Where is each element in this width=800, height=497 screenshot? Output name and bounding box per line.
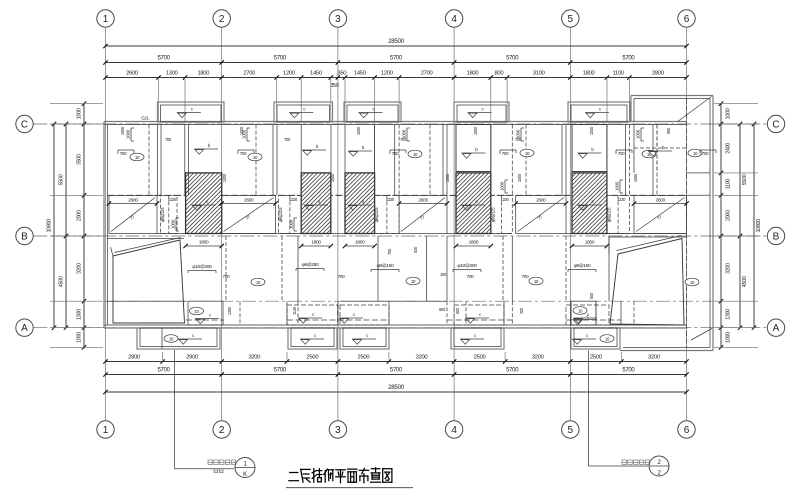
left dimension middle column <box>65 124 67 328</box>
bottom room slope <box>298 312 322 323</box>
svg-text:2600: 2600 <box>418 198 428 204</box>
right dimension outer column <box>753 124 755 328</box>
right wing hip diagonal bottom <box>691 329 712 341</box>
dimension row top overall 28500 <box>106 45 687 47</box>
right extension lines <box>714 103 758 105</box>
grid line axis A <box>33 327 767 329</box>
svg-text:100: 100 <box>440 272 447 277</box>
svg-text:1000: 1000 <box>726 108 732 119</box>
detail leader right <box>588 351 590 467</box>
svg-text:2000: 2000 <box>77 210 83 221</box>
svg-text:10800: 10800 <box>756 219 762 233</box>
bottom balcony 5 <box>571 328 620 349</box>
right dimension inner column <box>720 104 722 348</box>
svg-text:2800: 2800 <box>128 355 140 361</box>
svg-text:2600: 2600 <box>536 198 546 204</box>
axis circle B right <box>767 227 784 244</box>
dimension row bottom overall 28500 <box>106 391 687 393</box>
svg-text:1: 1 <box>103 14 109 25</box>
svg-text:1200: 1200 <box>283 71 295 77</box>
stair foot room left <box>188 301 223 325</box>
svg-text:3200: 3200 <box>532 355 544 361</box>
svg-text:1000: 1000 <box>126 129 131 139</box>
svg-text:2600: 2600 <box>655 198 665 204</box>
double wall lines band1 <box>157 125 159 196</box>
svg-text:5700: 5700 <box>506 56 519 62</box>
grid line axis 4 <box>453 27 455 420</box>
top balcony 1 <box>158 102 225 122</box>
bottom room slope <box>465 312 489 323</box>
title underline <box>286 487 413 489</box>
axis circle 5 top <box>562 10 579 27</box>
slab mark <box>406 277 420 285</box>
shaft cell 2 <box>279 195 302 233</box>
svg-text:1800: 1800 <box>355 240 365 246</box>
svg-text:4: 4 <box>451 14 457 25</box>
svg-text:1220: 1220 <box>386 197 395 202</box>
svg-text:φ8@250: φ8@250 <box>302 262 319 268</box>
outer wall left <box>103 122 105 329</box>
slab mark <box>408 150 422 158</box>
svg-text:1800: 1800 <box>199 240 209 246</box>
svg-text:1000: 1000 <box>120 126 125 135</box>
svg-text:φ8@150: φ8@150 <box>377 263 394 269</box>
title: 二层结构平面布置图 <box>289 473 299 481</box>
svg-text:1000: 1000 <box>633 173 638 182</box>
interior partitions band4 <box>239 301 241 325</box>
svg-text:5500: 5500 <box>742 174 748 185</box>
svg-text:1000: 1000 <box>356 126 361 135</box>
interior partitions band1 <box>148 125 150 196</box>
bottom room <box>566 305 609 325</box>
svg-text:1800: 1800 <box>583 71 595 77</box>
svg-text:2: 2 <box>219 425 225 436</box>
svg-text:2600: 2600 <box>128 198 138 204</box>
dimension row bottom subdivisions <box>106 361 687 363</box>
slab mark <box>642 150 656 158</box>
svg-text:1450: 1450 <box>310 71 322 77</box>
right wing roof outline <box>631 95 713 97</box>
svg-text:1300: 1300 <box>726 309 732 320</box>
svg-text:520: 520 <box>413 246 418 253</box>
right wing hip diagonal top <box>677 97 712 123</box>
grid line axis B <box>33 235 767 237</box>
svg-text:500: 500 <box>589 292 594 299</box>
svg-text:1200: 1200 <box>381 71 393 77</box>
svg-text:700: 700 <box>284 137 291 142</box>
top balcony 3 <box>344 102 401 122</box>
svg-text:A: A <box>773 323 780 334</box>
grid line axis 2 <box>221 27 223 420</box>
left dimension outer column <box>53 124 55 328</box>
bottom balcony divider <box>161 328 163 349</box>
svg-text:28500: 28500 <box>388 38 405 45</box>
svg-text:700: 700 <box>702 151 709 156</box>
dimension row top 5700s <box>106 62 687 64</box>
svg-text:1300: 1300 <box>166 71 178 77</box>
svg-text:4: 4 <box>451 425 457 436</box>
svg-text:2600: 2600 <box>244 198 254 204</box>
svg-text:1: 1 <box>103 425 109 436</box>
svg-text:5500: 5500 <box>59 174 65 185</box>
svg-text:φ8@125: φ8@125 <box>490 207 495 222</box>
svg-text:350: 350 <box>330 83 338 89</box>
axis circle 5 bottom <box>562 421 579 438</box>
axis circle 4 top <box>445 10 462 27</box>
svg-text:700: 700 <box>522 274 530 279</box>
slope symbol <box>648 145 672 156</box>
svg-text:700: 700 <box>618 151 625 156</box>
svg-text:φ8@125: φ8@125 <box>374 207 379 222</box>
svg-text:φ10@200: φ10@200 <box>457 263 477 269</box>
svg-text:A: A <box>21 323 28 334</box>
svg-text:6: 6 <box>684 425 690 436</box>
ramp room 3 2600 <box>399 195 447 233</box>
outer wall bottom <box>104 324 687 326</box>
svg-text:2: 2 <box>219 14 225 25</box>
wall segment row301 <box>341 300 447 302</box>
axis circle 2 top <box>213 10 230 27</box>
svg-text:5700: 5700 <box>390 56 403 62</box>
bottom room <box>287 305 338 325</box>
svg-text:500: 500 <box>455 307 460 314</box>
axis circle C left <box>16 115 33 132</box>
bottom balcony 1 <box>137 328 220 349</box>
svg-text:3: 3 <box>335 14 341 25</box>
svg-text:3200: 3200 <box>248 355 260 361</box>
right wing partitions <box>634 147 687 149</box>
svg-text:1000: 1000 <box>242 129 247 139</box>
svg-text:1800: 1800 <box>467 71 479 77</box>
svg-text:2800: 2800 <box>652 71 664 77</box>
svg-text:2000: 2000 <box>726 210 732 221</box>
slab mark <box>685 278 699 286</box>
extra partition stubs band1 <box>160 125 162 196</box>
left dimension inner column <box>83 104 85 348</box>
shaft cell 4 <box>491 195 513 233</box>
svg-text:3200: 3200 <box>77 263 83 274</box>
svg-text:1000: 1000 <box>589 126 594 135</box>
grid line axis C <box>33 123 767 125</box>
svg-text:5700: 5700 <box>622 368 635 374</box>
svg-text:3200: 3200 <box>726 263 732 274</box>
svg-text:600: 600 <box>439 307 446 312</box>
svg-text:1000: 1000 <box>473 126 478 135</box>
dimension row bottom 5700s <box>106 374 687 376</box>
svg-text:2500: 2500 <box>474 355 486 361</box>
slope symbol <box>194 143 218 154</box>
svg-text:3500: 3500 <box>77 154 83 165</box>
svg-text:5700: 5700 <box>506 368 519 374</box>
svg-text:G21: G21 <box>141 116 149 121</box>
svg-text:φ8@125: φ8@125 <box>160 207 165 222</box>
svg-text:4500: 4500 <box>742 276 748 287</box>
axis circle B left <box>16 227 33 244</box>
slab mark <box>529 277 543 285</box>
bottom balcony 3 <box>340 328 389 349</box>
stair hatch dim <box>186 245 222 247</box>
svg-text:1000: 1000 <box>77 332 83 343</box>
svg-text:1000: 1000 <box>726 332 732 343</box>
grid line row 301 <box>104 300 713 302</box>
axis circle A left <box>16 319 33 336</box>
interior partitions band3 <box>225 236 227 301</box>
svg-text:1000: 1000 <box>289 219 294 229</box>
detail leader left <box>173 350 175 469</box>
svg-text:2600: 2600 <box>126 71 138 77</box>
svg-text:1800: 1800 <box>197 71 209 77</box>
svg-text:5: 5 <box>568 425 574 436</box>
svg-text:1140: 1140 <box>292 306 297 315</box>
interior wall row 233.5 <box>157 233 301 235</box>
big room bottom-right <box>610 239 684 326</box>
axis circle 1 top <box>97 10 114 27</box>
top balcony 4 <box>454 102 509 122</box>
axis circle 4 bottom <box>445 421 462 438</box>
svg-text:1100: 1100 <box>726 179 732 190</box>
svg-text:2400: 2400 <box>726 143 732 154</box>
bottom room slope <box>573 312 597 323</box>
detail bubble left <box>235 458 255 478</box>
axis circle 3 top <box>329 10 346 27</box>
slab mark <box>130 153 144 161</box>
svg-text:700: 700 <box>120 151 127 156</box>
shaft cell 3 <box>375 195 400 233</box>
svg-text:5700: 5700 <box>158 368 171 374</box>
bottom balcony 2 <box>288 328 337 349</box>
svg-text:700: 700 <box>400 137 407 142</box>
right dimension middle column <box>739 124 741 328</box>
axis circle 2 bottom <box>213 421 230 438</box>
stair hatch dim <box>301 245 331 247</box>
axis circle 3 bottom <box>329 421 346 438</box>
svg-text:3: 3 <box>335 425 341 436</box>
ramp room 2 2600 <box>222 195 276 233</box>
svg-text:700: 700 <box>502 151 509 156</box>
axis circle 6 top <box>678 10 695 27</box>
bottom balcony 4 <box>451 328 504 349</box>
svg-text:2700: 2700 <box>421 71 433 77</box>
svg-text:5700: 5700 <box>390 368 403 374</box>
svg-text:700: 700 <box>223 274 231 279</box>
svg-text:3100: 3100 <box>533 71 545 77</box>
slab mark <box>248 153 262 161</box>
svg-text:1300: 1300 <box>77 309 83 320</box>
svg-text:5700: 5700 <box>274 56 287 62</box>
svg-text:C: C <box>772 119 779 130</box>
svg-text:1100: 1100 <box>613 71 624 77</box>
left callout text 节点大样一 <box>208 460 236 464</box>
svg-text:1000: 1000 <box>636 129 641 139</box>
stair hatch dim <box>572 245 607 247</box>
right wing inner wall <box>686 99 688 348</box>
svg-text:1800: 1800 <box>311 240 321 246</box>
svg-text:200: 200 <box>519 307 524 314</box>
axis circle 1 bottom <box>97 421 114 438</box>
extension lines top ticks <box>158 79 160 121</box>
svg-text:5700: 5700 <box>622 56 635 62</box>
svg-text:C: C <box>21 119 28 130</box>
stair hatch dim <box>345 245 375 247</box>
top balcony 2 <box>274 102 333 122</box>
svg-text:700: 700 <box>392 151 399 156</box>
extension lines bottom ticks <box>162 352 164 360</box>
outer wall top <box>104 121 687 123</box>
svg-text:φ10@200: φ10@200 <box>192 264 212 270</box>
svg-text:B: B <box>21 231 28 242</box>
axis circle C right <box>767 115 784 132</box>
svg-text:700: 700 <box>338 274 346 279</box>
slab mark <box>251 278 265 286</box>
svg-text:1220: 1220 <box>500 197 509 202</box>
svg-text:1200: 1200 <box>227 306 232 315</box>
detail bubble right <box>649 456 669 476</box>
svg-text:1000: 1000 <box>517 173 522 182</box>
right callout text 节点大样二 <box>622 460 650 464</box>
svg-text:350: 350 <box>337 71 346 77</box>
svg-text:K: K <box>243 472 247 478</box>
svg-text:1450: 1450 <box>354 71 366 77</box>
svg-text:700: 700 <box>240 151 247 156</box>
svg-text:φ8@150: φ8@150 <box>574 263 591 269</box>
svg-text:900: 900 <box>666 127 671 134</box>
svg-text:700: 700 <box>387 248 392 255</box>
grid line axis 1 <box>105 27 107 420</box>
svg-text:5: 5 <box>568 14 574 25</box>
grid line axis 3 <box>337 27 339 420</box>
slope symbol <box>348 145 372 156</box>
axis circle 6 bottom <box>678 421 695 438</box>
svg-text:800: 800 <box>495 71 504 77</box>
svg-text:B: B <box>773 231 780 242</box>
svg-text:3200: 3200 <box>416 355 428 361</box>
svg-text:1000: 1000 <box>445 173 450 182</box>
svg-text:700: 700 <box>515 137 522 142</box>
svg-text:5700: 5700 <box>158 56 171 62</box>
big room bottom-left <box>113 240 185 323</box>
svg-text:28500: 28500 <box>388 384 405 391</box>
bottom room <box>340 305 389 325</box>
stair upper room 1 <box>456 125 491 172</box>
grid line axis 5 <box>569 27 571 420</box>
svg-text:2500: 2500 <box>590 355 602 361</box>
svg-text:2500: 2500 <box>307 355 319 361</box>
shaft cell 1 <box>161 195 178 233</box>
svg-text:1000: 1000 <box>77 108 83 119</box>
stair hatch dim <box>456 245 491 247</box>
interior wall near B <box>108 238 185 240</box>
svg-text:1220: 1220 <box>289 197 298 202</box>
axis circle A right <box>767 319 784 336</box>
svg-text:1000: 1000 <box>171 219 176 229</box>
room bracket dims <box>118 149 134 151</box>
svg-text:10800: 10800 <box>47 219 53 233</box>
bottom room slope <box>339 312 363 323</box>
stair upper room 2 <box>572 125 607 172</box>
stair foot room right <box>571 301 596 325</box>
left extension lines <box>50 103 103 105</box>
svg-text:3200: 3200 <box>648 355 660 361</box>
svg-text:2700: 2700 <box>243 71 255 77</box>
svg-text:1220: 1220 <box>617 197 626 202</box>
ramp room 1 2600 <box>109 195 157 233</box>
shaft cell 5 <box>607 195 630 233</box>
slope symbol <box>302 144 326 155</box>
ramp room 5 2600 <box>634 195 687 233</box>
interior wall row 195 <box>108 194 687 196</box>
interior wall row 320 <box>186 319 224 321</box>
svg-text:1000: 1000 <box>500 181 505 191</box>
svg-text:4500: 4500 <box>59 276 65 287</box>
svg-text:φ8@125: φ8@125 <box>278 207 283 222</box>
slab mark <box>688 149 702 157</box>
svg-text:6: 6 <box>684 14 690 25</box>
ramp room 4 2600 <box>516 195 566 233</box>
svg-text:2500: 2500 <box>358 355 370 361</box>
svg-text:700: 700 <box>467 274 475 279</box>
svg-text:φ8@125: φ8@125 <box>606 207 611 222</box>
svg-text:700: 700 <box>165 137 172 142</box>
svg-text:2900: 2900 <box>186 355 198 361</box>
svg-text:1800: 1800 <box>469 240 479 246</box>
svg-text:1220: 1220 <box>168 197 177 202</box>
slab mark <box>520 149 534 157</box>
svg-text:1800: 1800 <box>585 240 595 246</box>
bottom room <box>454 305 504 325</box>
top balcony 5 <box>568 102 630 122</box>
grid line axis 6 <box>686 27 688 420</box>
svg-text:1000: 1000 <box>615 181 620 191</box>
svg-text:5700: 5700 <box>274 368 287 374</box>
dimension row top subdivisions <box>106 77 687 79</box>
svg-text:1000: 1000 <box>222 173 227 182</box>
